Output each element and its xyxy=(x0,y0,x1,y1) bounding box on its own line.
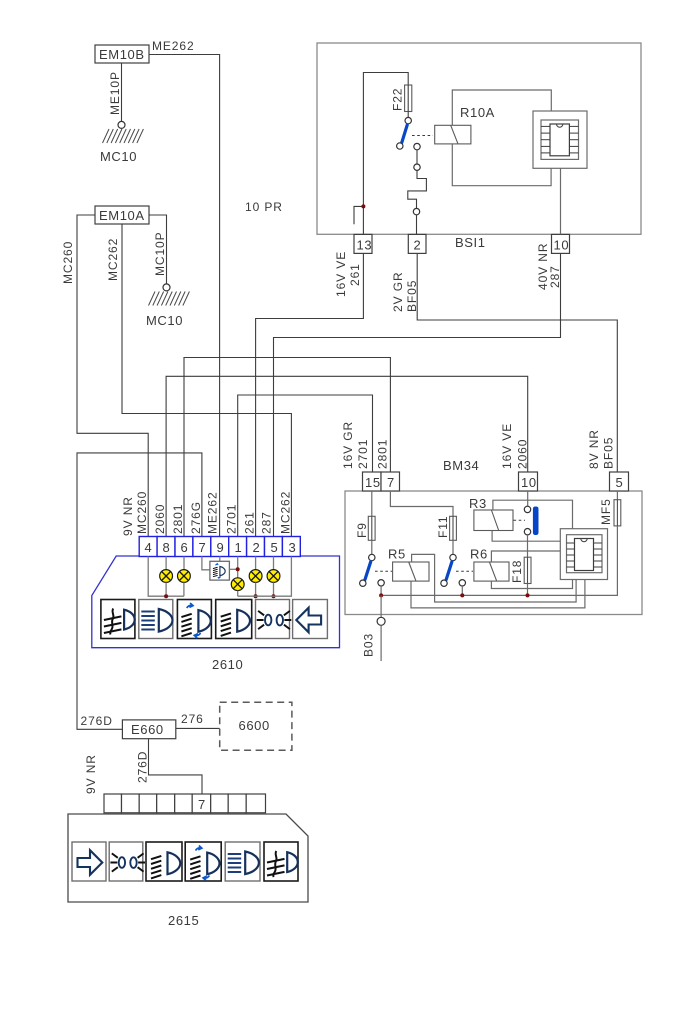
switch R6 fixed contact xyxy=(459,580,465,586)
svg-text:MC10: MC10 xyxy=(146,313,183,328)
svg-text:16V VE: 16V VE xyxy=(334,251,348,297)
svg-text:7: 7 xyxy=(198,797,206,812)
wire 2701 from BM34 pin 15 to 2610 pin 1 xyxy=(238,395,373,537)
wire R5 coil top to IC xyxy=(412,554,576,602)
lamp low position (pin 1) xyxy=(231,578,244,591)
svg-text:MF5: MF5 xyxy=(599,498,613,525)
wire contact to pin 2 xyxy=(416,215,418,235)
wire actuator to pin 1 wire xyxy=(229,568,237,570)
wire pin 1 down xyxy=(237,557,239,578)
wire pin 6 to lamp xyxy=(183,557,185,570)
svg-text:10: 10 xyxy=(521,475,537,490)
switch R5 blue arm xyxy=(365,562,371,580)
stub node on pin 13 wire xyxy=(354,206,363,224)
electronic module (IC) of BM34 xyxy=(560,529,607,580)
wire lamp to return xyxy=(273,582,275,596)
wire MC10P from EM10A to ground MC10 xyxy=(149,215,167,284)
svg-text:3: 3 xyxy=(289,540,296,555)
svg-text:8: 8 xyxy=(163,540,170,555)
svg-text:B03: B03 xyxy=(362,633,376,657)
svg-text:5: 5 xyxy=(616,475,624,490)
pin 5 of BM34 xyxy=(610,472,629,491)
switch R6 blue arm xyxy=(446,562,452,580)
wire R3 coil top to IC xyxy=(493,500,573,529)
svg-text:2610: 2610 xyxy=(212,657,243,672)
svg-text:F18: F18 xyxy=(510,560,524,583)
icon box turn indicator (2615) xyxy=(72,842,106,881)
svg-text:276: 276 xyxy=(181,712,204,726)
junction lamp2 / return xyxy=(254,594,258,598)
wire 276 from E660 to 6600 xyxy=(176,727,220,729)
inline contact circle xyxy=(414,164,420,170)
svg-text:2701: 2701 xyxy=(356,439,370,469)
svg-text:2060: 2060 xyxy=(153,504,167,534)
svg-text:2615: 2615 xyxy=(168,913,199,928)
wire 276D from E660 to 2615 pin 7 xyxy=(149,739,203,794)
wire fuse F18 to bus xyxy=(527,584,529,596)
wire MC262 from EM10A to 2610 pin 3 xyxy=(122,224,291,537)
wire fuse F9 to switch R5 xyxy=(371,540,373,554)
wire 276G from 2610 pin 7 to splice E660 xyxy=(77,453,202,729)
dashed link R3 coil to contact xyxy=(514,519,526,521)
svg-text:MC10: MC10 xyxy=(100,149,137,164)
icon box low beam (2610) xyxy=(216,600,252,639)
contact circle above pin 2 xyxy=(413,208,419,214)
switch blue arm (relay R10A contact) xyxy=(402,125,407,143)
splice E660 xyxy=(122,720,175,739)
svg-text:261: 261 xyxy=(243,511,257,534)
wire pin 2 to lamp xyxy=(255,557,257,570)
svg-text:7: 7 xyxy=(387,475,395,490)
svg-text:MC10P: MC10P xyxy=(153,231,167,276)
wire relay coil top to IC xyxy=(452,90,551,125)
wire 287 from BSI1 pin 10 to 2610 pin 5 xyxy=(274,254,561,537)
svg-text:10 PR: 10 PR xyxy=(245,200,283,214)
junction on pin 13 wire xyxy=(361,204,365,208)
svg-text:6: 6 xyxy=(181,540,188,555)
svg-text:2701: 2701 xyxy=(225,504,239,534)
wire B03 from bus down xyxy=(380,595,382,617)
svg-text:BM34: BM34 xyxy=(443,458,479,473)
svg-text:2V GR: 2V GR xyxy=(391,271,405,312)
icon box levelling (2615) xyxy=(185,842,221,881)
svg-text:F9: F9 xyxy=(355,522,369,538)
unit 6600 dashed box xyxy=(220,702,292,750)
headlamp levelling actuator box xyxy=(210,561,230,580)
svg-text:9V NR: 9V NR xyxy=(84,754,98,794)
wire switch R5 contact to bus xyxy=(380,586,382,595)
junction lamp5 / return xyxy=(272,594,276,598)
svg-text:MC262: MC262 xyxy=(279,491,293,534)
svg-text:287: 287 xyxy=(548,265,562,288)
svg-text:276G: 276G xyxy=(189,501,203,534)
lamp (pin 2) xyxy=(249,570,262,583)
svg-text:261: 261 xyxy=(348,263,362,286)
wire pin 4 to lamp return (left) xyxy=(148,557,184,597)
svg-text:2: 2 xyxy=(414,238,422,253)
lamp low beam left xyxy=(178,570,191,583)
icon box turn indicator (2610) xyxy=(293,600,328,639)
wire fixed contact to inline contact xyxy=(416,150,418,164)
svg-text:E660: E660 xyxy=(131,722,164,737)
wire fuse F11 to switch R6 xyxy=(452,540,454,554)
lamp position light left xyxy=(160,570,173,583)
contact circle R3 top xyxy=(524,506,530,512)
junction bus / F18 xyxy=(526,593,530,597)
svg-text:2: 2 xyxy=(253,540,260,555)
wire pin 15 to fuse F9 xyxy=(371,491,373,516)
wire ME10P from EM10B to ground MC10 xyxy=(121,63,123,121)
relay coil R6 xyxy=(470,547,509,582)
icon box fog (2610) xyxy=(101,600,135,639)
wire pin 3 to lamp return (right) xyxy=(238,557,292,597)
wire MC260 from EM10A to 2610 pin 4 xyxy=(77,215,148,537)
svg-text:1: 1 xyxy=(235,540,242,555)
wire pin 8 to lamp xyxy=(165,557,167,570)
svg-text:16V GR: 16V GR xyxy=(341,421,355,469)
wire below B03 xyxy=(380,625,382,661)
switch R5 pivot contact xyxy=(369,554,375,560)
headlamp unit 2610 outline xyxy=(92,556,340,648)
svg-text:ME10P: ME10P xyxy=(108,71,122,115)
fuse F9 xyxy=(355,516,375,540)
svg-text:BF05: BF05 xyxy=(602,437,616,469)
control unit BSI1 box xyxy=(317,43,641,234)
wire lamp1 to return xyxy=(237,591,239,597)
junction actuator / pin 1 wire xyxy=(236,567,240,571)
control unit BM34 box xyxy=(345,491,642,615)
wire 2060 from BM34 pin 10 to 2610 pin 8 xyxy=(166,376,528,536)
switch R5 fixed contact xyxy=(378,580,384,586)
svg-text:16V VE: 16V VE xyxy=(500,423,514,469)
svg-text:EM10A: EM10A xyxy=(99,208,145,223)
ground MC10 (lower) xyxy=(146,284,189,328)
switch fixed contact xyxy=(414,143,420,149)
svg-text:10: 10 xyxy=(554,238,570,253)
connector of 2615 (pin 7) xyxy=(104,794,266,813)
wire 261 from BSI1 pin 13 to 2610 pin 2 xyxy=(256,254,364,537)
connector B03 circle xyxy=(377,617,385,625)
fuse F22 xyxy=(391,85,412,112)
dashed link to relay coil R6 xyxy=(456,570,473,572)
fuse F11 xyxy=(436,516,456,541)
svg-text:F22: F22 xyxy=(391,88,405,111)
svg-text:EM10B: EM10B xyxy=(99,47,145,62)
pin 15 of BM34 xyxy=(363,472,382,491)
supply bus wire inside BM34 xyxy=(381,526,617,596)
svg-text:13: 13 xyxy=(357,238,373,253)
relay coil R3 xyxy=(469,496,513,531)
wire lamp to return xyxy=(255,582,257,596)
icon box high beam (2610) xyxy=(139,600,173,639)
wire fuse F22 to switch contact xyxy=(407,112,409,118)
svg-text:2801: 2801 xyxy=(376,439,390,469)
wire lamp to return xyxy=(183,582,185,596)
relay coil R5 xyxy=(388,547,429,582)
ground MC10 (upper) xyxy=(100,121,143,164)
fuse MF5 xyxy=(599,498,621,526)
svg-text:5: 5 xyxy=(271,540,278,555)
pin 13 of BSI1 xyxy=(354,234,372,253)
wire R6 coil top to IC xyxy=(491,551,560,562)
svg-text:R3: R3 xyxy=(469,496,487,511)
wire pin 7 to fuse F11 xyxy=(390,491,453,516)
svg-text:R6: R6 xyxy=(470,547,488,562)
fuse F18 xyxy=(510,557,531,583)
switch R5 arm end contact xyxy=(360,580,366,586)
svg-text:ME262: ME262 xyxy=(152,39,195,53)
pin 7 of BM34 xyxy=(381,472,400,491)
wire from pin 13 up to fuse F22 xyxy=(363,73,408,235)
switch R6 arm end contact xyxy=(441,580,447,586)
svg-text:9V NR: 9V NR xyxy=(121,496,135,536)
connector of 2610 (pins 4 8 6 7 9 1 2 5 3) xyxy=(139,537,300,557)
contact circle R3 bottom xyxy=(524,529,530,535)
wire R5 coil bottom to IC xyxy=(411,580,585,608)
switch arm end contact xyxy=(397,143,403,149)
svg-text:BF05: BF05 xyxy=(405,280,419,312)
junction bus / R5 xyxy=(379,593,383,597)
pin 10 of BSI1 xyxy=(552,234,570,253)
wire BF05 from BSI1 pin 2 to BM34 pin 5 xyxy=(417,254,617,473)
svg-text:276D: 276D xyxy=(81,714,113,728)
wire contact R3 to fuse F18 xyxy=(527,535,529,557)
svg-text:ME262: ME262 xyxy=(206,491,220,534)
svg-text:R10A: R10A xyxy=(460,105,495,120)
junction bus / R6 xyxy=(460,593,464,597)
wire R3 coil bottom to IC xyxy=(492,531,560,542)
zigzag wire from contact to pin 2 xyxy=(408,170,427,208)
wire pin 7 to levelling actuator xyxy=(202,557,210,570)
svg-text:4: 4 xyxy=(145,540,152,555)
switch R6 pivot contact xyxy=(450,554,456,560)
wire R6 coil bottom to IC xyxy=(491,580,572,589)
wire lamp to return xyxy=(165,582,167,596)
svg-text:7: 7 xyxy=(199,540,206,555)
svg-text:15: 15 xyxy=(365,475,381,490)
svg-text:MC262: MC262 xyxy=(106,238,120,281)
svg-text:MC260: MC260 xyxy=(61,241,75,284)
icon box levelling (2610) xyxy=(177,600,211,639)
wire pin 5 to fuse MF5 xyxy=(616,491,618,500)
icon box position lights (2615) xyxy=(109,842,145,881)
dashed link to relay coil R5 xyxy=(375,570,392,572)
icon box fog light (2615) xyxy=(264,842,298,881)
lamp (pin 5) xyxy=(267,570,280,583)
dashed actuation link to relay coil R10A xyxy=(412,135,433,137)
svg-text:276D: 276D xyxy=(136,751,150,783)
svg-text:F11: F11 xyxy=(436,516,450,539)
icon box low beam (2615) xyxy=(146,842,182,881)
blue closed contact bar R3 xyxy=(533,507,539,536)
wire pin 10 to contact R3 xyxy=(527,491,529,506)
junction lamp8 / return xyxy=(164,594,168,598)
switch pivot contact xyxy=(405,117,411,123)
svg-text:2801: 2801 xyxy=(171,504,185,534)
electronic module (IC) of BSI1 xyxy=(533,111,587,168)
svg-text:R5: R5 xyxy=(388,547,406,562)
icon box position lights (2610) xyxy=(256,600,292,639)
wire 2801 from BM34 pin 7 to 2610 pin 6 xyxy=(184,358,390,537)
svg-text:BSI1: BSI1 xyxy=(455,235,486,250)
pin 10 of BM34 xyxy=(519,472,538,491)
svg-text:9: 9 xyxy=(217,540,224,555)
rear lamp unit 2615 outline xyxy=(68,814,308,902)
svg-text:8V NR: 8V NR xyxy=(587,429,601,469)
wire IC to pin 10 xyxy=(560,168,562,234)
svg-text:MC260: MC260 xyxy=(135,491,149,534)
pin 2 of BSI1 xyxy=(408,234,426,253)
svg-text:2060: 2060 xyxy=(516,439,530,469)
wire ME262 from EM10B to 2610 pin 9 xyxy=(149,55,220,537)
wire pin 9 to levelling actuator xyxy=(219,557,221,562)
splice EM10B xyxy=(95,45,149,63)
wire relay coil bottom to IC xyxy=(452,144,551,186)
svg-text:6600: 6600 xyxy=(239,718,270,733)
icon box high beam (2615) xyxy=(225,842,260,881)
splice EM10A xyxy=(95,206,149,224)
wire switch R6 contact to bus xyxy=(461,586,463,595)
relay coil R10A xyxy=(435,105,495,144)
wire pin 5 to lamp xyxy=(273,557,275,570)
svg-text:287: 287 xyxy=(260,511,274,534)
